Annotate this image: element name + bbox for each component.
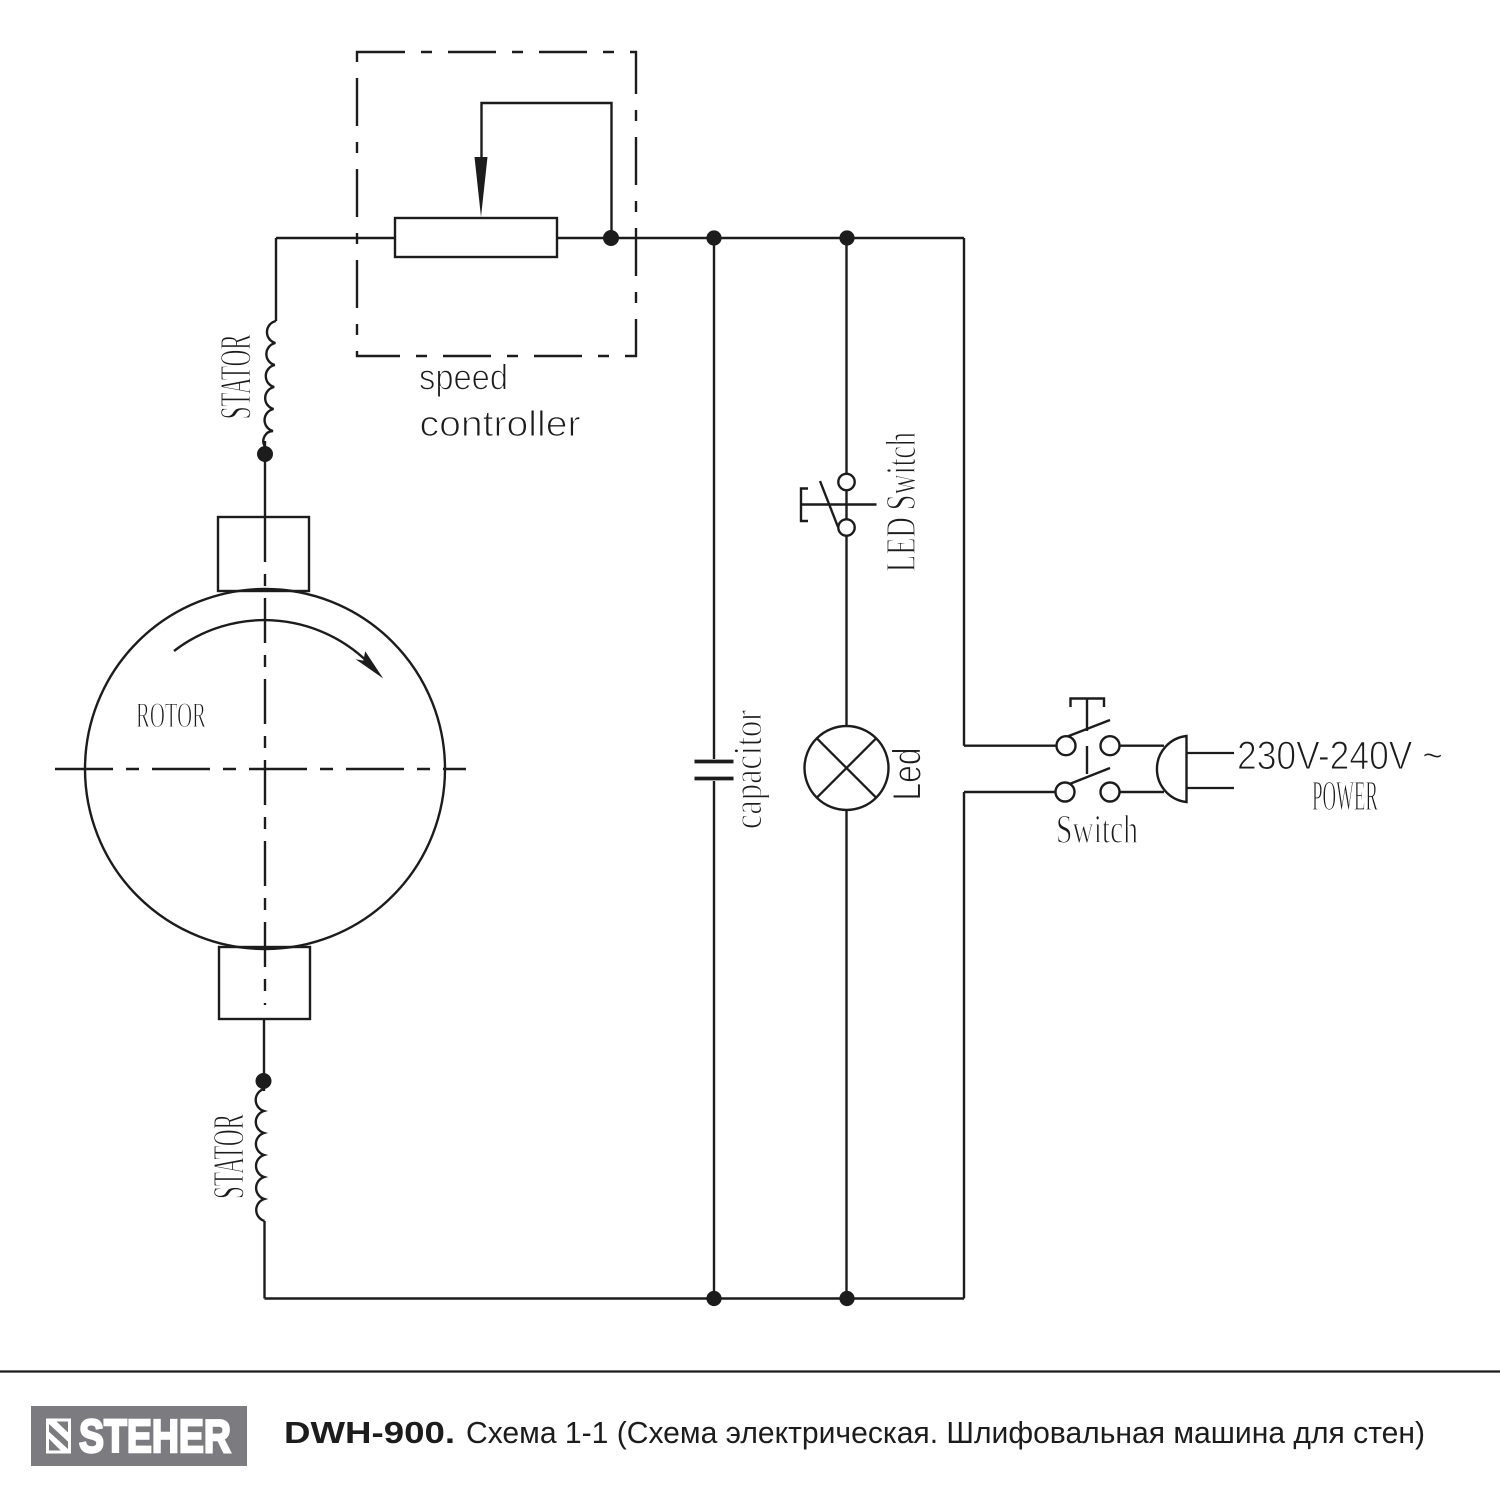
brush top rectangle: [218, 517, 309, 591]
wire top rail right segment: [557, 237, 964, 239]
LED switch lever: [820, 481, 838, 527]
rotor centerline vertical dashed: [264, 517, 266, 1005]
main switch contact upper-right: [1101, 736, 1120, 755]
wiper feedback wire: [482, 103, 612, 238]
capacitor top lead: [713, 238, 715, 759]
main switch contact lower-left: [1056, 783, 1075, 802]
node: capacitor bottom: [706, 1291, 721, 1306]
svg-text:Схема 1-1 (Схема электрическая: Схема 1-1 (Схема электрическая. Шлифовал…: [466, 1416, 1425, 1450]
rotor rotation arrow arc: [174, 620, 377, 672]
icon gray triangle top-right: [56, 1422, 68, 1433]
svg-text:POWER: POWER: [1312, 774, 1378, 820]
svg-text:controller: controller: [420, 403, 581, 444]
footer separator: [0, 1370, 1500, 1372]
svg-text:230V-240V ~: 230V-240V ~: [1237, 734, 1443, 778]
main switch T actuator bar: [1071, 699, 1105, 708]
capacitor C1 bottom plate: [695, 777, 734, 781]
wire coil to bottom rail: [263, 1221, 265, 1299]
lamp Led circle: [805, 726, 889, 810]
LED switch contact bottom: [838, 519, 854, 535]
rotation arrow head: [356, 651, 384, 678]
svg-text:STATOR: STATOR: [211, 334, 260, 419]
svg-text:STATOR: STATOR: [204, 1114, 253, 1199]
main switch actuator stem upper: [1086, 699, 1088, 732]
node: led top: [839, 230, 854, 245]
speed controller dashed box: [357, 52, 636, 356]
wire lower switch feed: [964, 791, 1056, 793]
STEHER logo icon: [46, 1419, 71, 1454]
capacitor bottom lead: [713, 781, 715, 1299]
capacitor C1 top plate: [695, 760, 734, 764]
LED switch contact top: [838, 474, 854, 490]
inductor STATOR top coil: [263, 321, 276, 447]
wire switch to plug upper: [1120, 745, 1165, 747]
icon white square: [46, 1419, 71, 1454]
lamp X stroke 2: [817, 738, 876, 797]
main switch upper lever: [1061, 720, 1110, 739]
node: wiper junction: [603, 230, 619, 246]
plug prong lower: [1187, 787, 1235, 789]
rotor centerline horizontal dashed: [55, 768, 466, 770]
rotor circle: [85, 589, 445, 949]
LED switch actuator bracket: [801, 489, 808, 522]
wire right branch upper vertical: [963, 238, 965, 746]
lamp X stroke 1: [817, 738, 876, 797]
wiper arrow head: [475, 157, 488, 217]
svg-text:Led: Led: [886, 748, 930, 801]
main switch lower lever: [1067, 768, 1110, 785]
node: capacitor top: [706, 230, 721, 245]
wire top rail left segment: [276, 237, 395, 239]
svg-text:speed: speed: [419, 357, 508, 398]
wire coil to brush: [264, 441, 266, 517]
svg-text:LED Switch: LED Switch: [879, 432, 925, 572]
wire right branch lower vertical: [963, 792, 965, 1299]
inductor STATOR bottom coil: [256, 1089, 265, 1221]
main switch actuator stem lower: [1086, 746, 1088, 774]
node: stator1 bottom: [257, 446, 273, 462]
wire switch to plug lower: [1120, 791, 1165, 793]
wire upper switch feed: [964, 745, 1057, 747]
LED switch actuator stem: [801, 503, 877, 505]
svg-text:STEHER: STEHER: [79, 1410, 231, 1462]
plug prong upper: [1187, 752, 1235, 754]
svg-text:ROTOR: ROTOR: [136, 695, 206, 735]
main switch contact lower-right: [1101, 783, 1120, 802]
wire stator1 drop: [275, 238, 277, 321]
icon gray triangle bottom-left: [49, 1439, 61, 1451]
wire brush to dot: [263, 1019, 265, 1091]
LED branch upper wire: [845, 238, 847, 726]
wire bottom rail: [265, 1297, 965, 1299]
svg-text:DWH-900.: DWH-900.: [284, 1416, 455, 1450]
icon gray diagonal band: [49, 1424, 68, 1449]
node: led bottom: [839, 1291, 854, 1306]
svg-text:capacitor: capacitor: [725, 710, 770, 829]
LED branch lower wire: [845, 810, 847, 1299]
STEHER logo plate: [31, 1406, 247, 1466]
potentiometer rectangle: [395, 218, 557, 257]
main switch contact upper-left: [1057, 736, 1076, 755]
plug body: [1157, 736, 1187, 802]
node: stator2 top: [256, 1073, 272, 1089]
brush bottom rectangle: [219, 947, 310, 1019]
svg-text:Switch: Switch: [1056, 807, 1138, 852]
